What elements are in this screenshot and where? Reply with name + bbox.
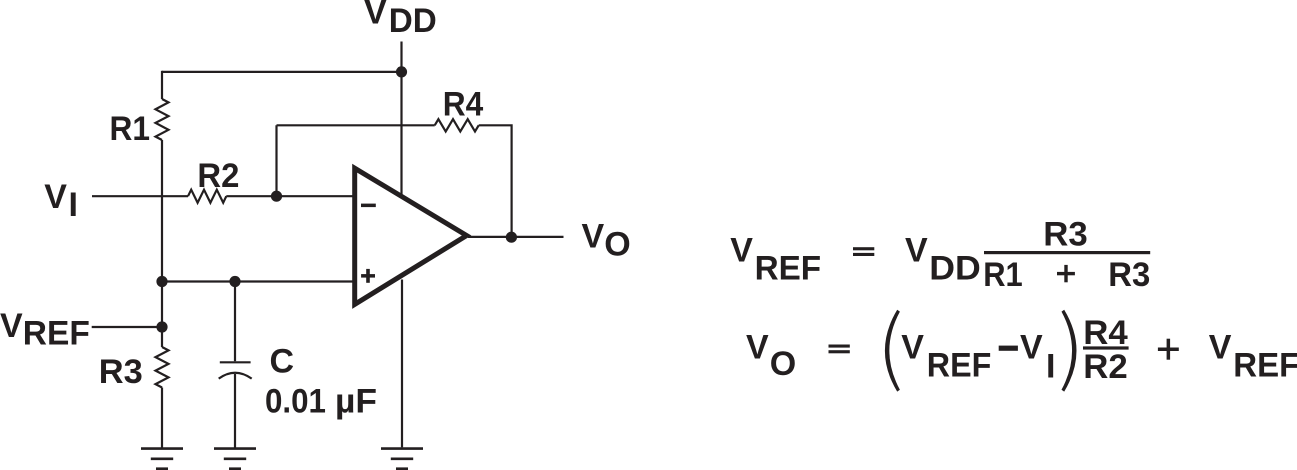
wire non-inverting input [162,280,353,282]
svg-text:µF: µF [335,383,377,421]
svg-text:V: V [0,307,23,345]
svg-text:O: O [604,226,630,264]
svg-text:R4: R4 [443,86,484,124]
svg-text:V: V [1020,328,1043,366]
wire R2 to inverting input [226,195,352,197]
ground R3 [141,449,183,469]
eq1 fraction bar [984,251,1150,254]
eq2 plus [1158,348,1179,352]
node dot inverting input [271,191,282,202]
wire R4 left lead [277,124,435,126]
svg-text:R1: R1 [110,110,151,148]
node junction dot V_DD [396,66,407,77]
node dot V_REF [156,321,167,332]
eq2 equals [829,345,850,348]
svg-text:0.01: 0.01 [265,383,326,421]
svg-text:C: C [270,343,295,381]
wire left rail lower [161,388,163,448]
wire V_I input [92,195,188,197]
svg-text:R4: R4 [1083,314,1128,352]
ground op-amp [381,449,423,469]
svg-text:DD: DD [389,2,437,40]
label V_REF [0,307,90,352]
wire capacitor upper stem [234,282,236,362]
svg-text:REF: REF [1233,346,1297,384]
wire output [468,236,564,238]
eq2 open paren [885,310,900,392]
resistor R2 [188,190,226,203]
wire V_DD stem [400,42,402,196]
svg-text:V: V [905,232,928,270]
svg-text:V: V [901,329,924,367]
wire op-amp ground stem [401,280,403,448]
equation 2: V_O = (V_REF - V_I) R4/R2 + V_REF [746,310,1297,392]
svg-text:I: I [1046,347,1055,385]
capacitor C bottom plate arc [219,373,252,379]
svg-text:R3: R3 [99,353,143,391]
svg-text:R2: R2 [1083,348,1128,386]
wire left rail upper [161,71,163,99]
svg-text:R2: R2 [197,157,239,195]
wire capacitor lower stem [234,374,236,448]
wire top rail V_DD to R1 [162,71,402,73]
eq2 minus [999,346,1018,351]
eq1 plus [1057,272,1075,275]
label V_O [582,218,631,264]
svg-text:REF: REF [755,249,822,287]
resistor R4 [435,119,479,131]
svg-text:DD: DD [929,249,981,287]
svg-text:I: I [69,186,78,224]
svg-text:V: V [1209,328,1232,366]
equation 1: V_REF = V_DD R3/(R1+R3) [730,215,1150,294]
wire left rail middle [161,140,163,347]
node dot capacitor tap [229,276,240,287]
svg-text:V: V [582,218,605,256]
svg-text:REF: REF [23,314,90,352]
resistor R1 [156,99,169,140]
op-amp U1 [355,168,467,304]
wire V_REF lead [92,326,162,328]
svg-text:O: O [770,345,796,383]
svg-text:R1: R1 [983,256,1023,294]
op-amp minus sign [361,204,376,208]
label C value 0.01 uF [265,383,377,421]
wire R4 right lead down to output [479,125,512,237]
svg-text:REF: REF [927,346,992,384]
svg-text:V: V [730,232,753,270]
node dot rail / non-inverting [156,276,167,287]
label V_DD [364,0,437,40]
ground capacitor [214,449,256,469]
svg-text:V: V [746,328,769,366]
node dot output [506,232,517,243]
svg-text:V: V [44,178,67,216]
eq2 fraction bar [1083,346,1129,349]
eq2 close paren [1062,310,1077,392]
wire feedback riser [275,125,277,196]
eq1 equals [853,247,874,250]
capacitor C top plate [220,361,251,363]
svg-text:R3: R3 [1108,256,1150,294]
svg-text:V: V [364,0,387,32]
resistor R3 [156,347,169,388]
svg-text:R3: R3 [1043,215,1088,253]
op-amp plus sign [361,274,375,278]
label V_I [44,178,78,224]
